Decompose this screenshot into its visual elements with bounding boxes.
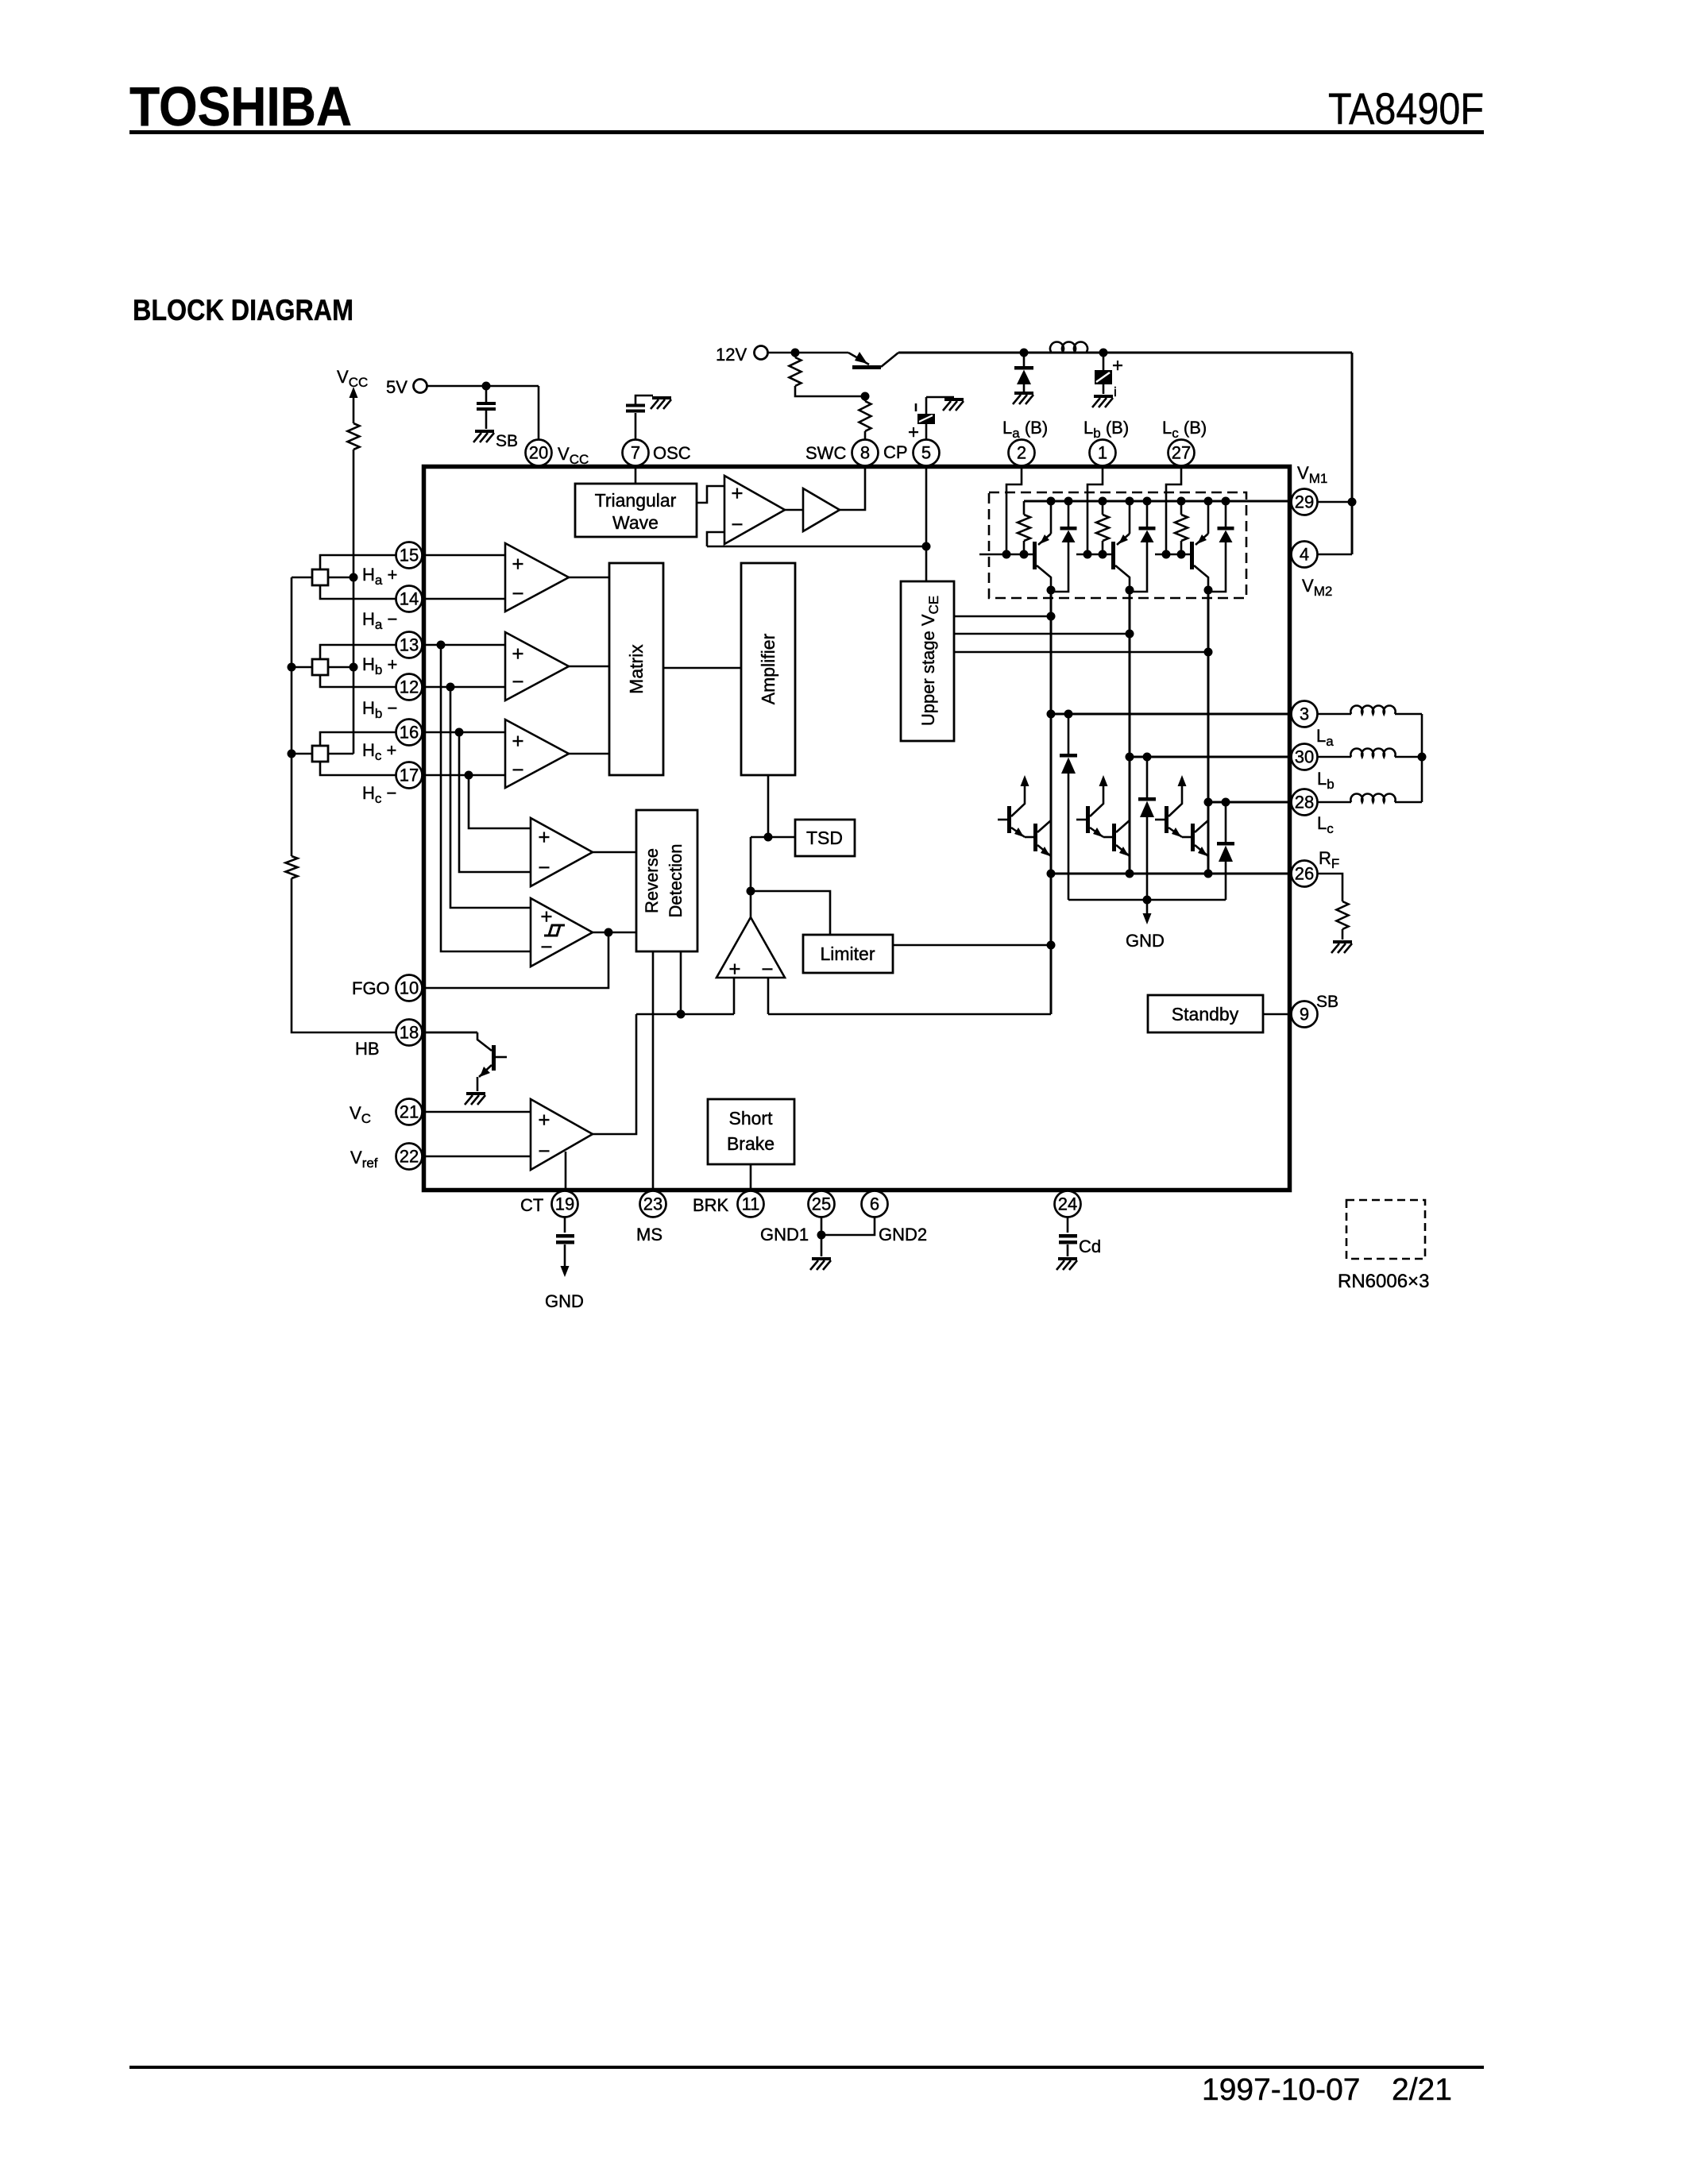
ground (C2) [1092, 396, 1113, 407]
header rule [129, 130, 1484, 134]
svg-text:6: 6 [870, 1194, 879, 1214]
svg-text:+: + [908, 422, 919, 443]
wire Limiter output to current sense line [893, 944, 1051, 947]
wire Hb right lead to VCC line [328, 666, 353, 669]
svg-text:Cd: Cd [1079, 1237, 1101, 1256]
transistor lower Q2b collector [1116, 820, 1130, 832]
pin 27 [1168, 440, 1195, 466]
block Amplifier [741, 563, 795, 775]
pin 12 [396, 674, 423, 700]
transistor lower Q2a base bar [1033, 824, 1037, 851]
svg-text:3: 3 [1300, 704, 1309, 724]
wire comparator - input jog [707, 532, 724, 546]
wire pin 26 to RF resistor [1317, 874, 1342, 901]
wire PWM node to Limiter [751, 891, 830, 935]
svg-text:27: 27 [1172, 443, 1191, 463]
transistor upper Qc emitter (arrow in, PNP) [1207, 503, 1210, 534]
transistor lower Q1b base bar [1086, 806, 1090, 833]
diode D1 flyback on 12V rail [1023, 353, 1026, 366]
junction collector node a [1047, 586, 1056, 595]
wire pin29 to VM line [1318, 501, 1352, 504]
wire Hc top lead to pin 16 [320, 732, 505, 746]
junction drive a [1047, 612, 1056, 621]
inductor motor winding Lb [1317, 756, 1351, 758]
ground (C3) [943, 399, 964, 411]
wire pin feed jog phase b [1087, 465, 1103, 554]
junction VCC / Hb+ [350, 663, 358, 672]
base rail upper transistor b [1076, 554, 1111, 556]
label minus tick of C3 [915, 403, 917, 411]
wire down to PWM node [750, 837, 752, 891]
junction VM1 rail / emitter c [1204, 497, 1213, 506]
transistor upper Qa collector [1037, 565, 1051, 590]
wire - input rail to RF sense [768, 1013, 1051, 1016]
wire base node down to pin 8 [864, 396, 867, 401]
svg-text:12: 12 [400, 677, 419, 697]
block Triangular Wave [575, 484, 697, 537]
wire Hb left lead [292, 666, 312, 669]
hall element Hc (square) [312, 746, 328, 762]
wire triangular wave to comparator + input [697, 486, 724, 503]
transistor lower Q1b collector with up arrow [1090, 785, 1103, 816]
wire U5 output to Reverse Detection [593, 932, 636, 934]
transistor lower Q1a base stub [998, 819, 1008, 821]
transistor lower Q2c collector [1195, 820, 1208, 832]
junction RF / emitter b [1126, 870, 1134, 878]
svg-text:−: − [731, 512, 743, 536]
svg-text:+: + [538, 825, 550, 849]
wire bus3 (Hc+) down to comp4 - input [459, 732, 531, 872]
junction amplifier out / TSD [764, 833, 773, 842]
capacitor CT [556, 1234, 574, 1238]
pin 22 [396, 1144, 423, 1170]
svg-text:Upper stage VCE: Upper stage VCE [918, 596, 941, 726]
junction Lc / diode c [1222, 798, 1230, 807]
svg-text:La (B): La (B) [1002, 418, 1048, 441]
svg-text:Standby: Standby [1172, 1004, 1239, 1024]
block Short Brake [708, 1099, 794, 1164]
resistor from 12V rail [794, 353, 797, 357]
svg-text:CT: CT [520, 1195, 543, 1215]
transistor upper Qb collector [1115, 565, 1130, 590]
pin 9 [1292, 1001, 1318, 1028]
wire Standby to pin 9 [1263, 1013, 1292, 1016]
pin 16 [396, 720, 423, 746]
op-amp position comparator U4 [531, 818, 593, 886]
pin 14 [396, 586, 423, 612]
svg-text:Limiter: Limiter [820, 943, 875, 964]
svg-text:16: 16 [400, 723, 419, 743]
wire upper stage drive c [954, 651, 1208, 654]
junction 12V / resistor [791, 349, 800, 357]
transistor lower Q1a base bar [1007, 806, 1011, 833]
transistor Q-HB base bar [492, 1045, 496, 1071]
wire Reverse Detection to PWM + rail [680, 951, 682, 1014]
svg-text:+: + [512, 552, 523, 576]
diode flyback upper c [1222, 497, 1230, 506]
IC block boundary TA8490F [424, 467, 1290, 1190]
svg-text:29: 29 [1295, 492, 1314, 512]
wire 5V rail [427, 385, 539, 388]
svg-text:SWC: SWC [805, 443, 846, 463]
wire VCC line down to hall bridges [353, 450, 355, 754]
pin 20 VCC wire stub [538, 440, 540, 465]
wire bus2 (Hb-) down to hysteresis comp + input [450, 687, 531, 908]
diode flyback upper a [1064, 497, 1073, 506]
svg-text:26: 26 [1295, 864, 1314, 884]
wire Ha right lead to VCC line [328, 577, 353, 579]
resistor on left bias line [286, 856, 298, 878]
wire Lc phase line [1208, 801, 1317, 804]
pin 4 [1292, 542, 1318, 568]
wire U2 out to U3 [785, 509, 803, 511]
wire Short Brake to pin 11 [750, 1164, 752, 1188]
transistor lower Q2a emitter with arrow to RF rail [1037, 845, 1051, 856]
svg-text:22: 22 [400, 1147, 419, 1167]
wire 12V rail [767, 352, 848, 354]
svg-text:OSC: OSC [653, 443, 691, 463]
arrow up to VCC [350, 387, 358, 398]
wire U4 output to Reverse Detection [593, 851, 636, 854]
junction bridge rail [1143, 896, 1152, 905]
svg-text:5: 5 [921, 443, 931, 463]
wire Hb bottom lead to pin 12 [320, 675, 505, 687]
ground (GND1) [810, 1259, 831, 1270]
wire collector rail to VM supply [898, 352, 1352, 354]
wire Amplifier output down [767, 775, 770, 837]
wire star point vertical [1421, 714, 1423, 802]
wire U7 output to PWM + rail [593, 1014, 636, 1134]
op-amp U7 Vc error amp [531, 1099, 593, 1170]
op-amp U6 PWM comparator (apex up) [717, 917, 785, 978]
block Matrix [609, 563, 663, 775]
dashed box RN6006 legend [1346, 1200, 1425, 1259]
ground (Q-HB) [465, 1094, 485, 1105]
junction pin13 wire / bus1 [437, 641, 446, 650]
inductor motor winding Lc [1317, 801, 1351, 804]
wire OSC cap to ground [635, 396, 653, 404]
hysteresis symbol in U5 [544, 925, 565, 936]
wire hall amp B output to Matrix [569, 666, 609, 668]
svg-text:Reverse: Reverse [642, 848, 662, 913]
svg-text:23: 23 [643, 1194, 662, 1214]
wire Hb top lead to pin 13 [320, 645, 505, 659]
svg-text:GND: GND [1126, 931, 1165, 951]
wire bus1 (Hb+) down to hysteresis comp - input [441, 645, 531, 951]
capacitor SB bypass [477, 402, 496, 405]
op-amp hall amp A [505, 543, 569, 612]
capacitor OSC [635, 413, 637, 466]
junction feed / base rail c [1162, 550, 1171, 559]
svg-text:HB: HB [355, 1039, 380, 1059]
svg-text:+: + [512, 729, 523, 753]
wire bus4 (Hc-) down to comp4 + input [469, 775, 531, 828]
wire VCC vertical [353, 396, 355, 423]
svg-text:30: 30 [1295, 747, 1314, 767]
junction base rail / resistor a [1020, 550, 1029, 559]
pin 25 [809, 1191, 835, 1217]
pin 19 [552, 1191, 578, 1217]
svg-text:1997-10-07: 1997-10-07 [1202, 2073, 1361, 2107]
dashed box upper driver transistors RN6006 [989, 492, 1246, 598]
junction La / output a [1047, 710, 1056, 719]
junction RF / emitter a [1047, 870, 1056, 878]
junction pin16 wire / bus3 [455, 728, 464, 737]
inductor L1 on supply rail [1050, 341, 1087, 352]
junction VM1 external [1348, 498, 1357, 507]
svg-text:SB: SB [1316, 993, 1338, 1011]
wire + input rail from Vc amp [636, 1013, 734, 1016]
transistor lower Q1b emitter to Q2 base [1090, 828, 1103, 837]
junction PWM node [747, 887, 755, 896]
wire pin feed jog phase c [1166, 465, 1181, 554]
junction Lc / output c [1204, 798, 1213, 807]
svg-text:5V: 5V [386, 377, 408, 397]
transistor lower Q2a collector [1037, 820, 1051, 832]
junction rail / reservoir cap [1099, 349, 1108, 357]
resistor base-emitter upper a [1023, 501, 1026, 515]
svg-text:TA8490F: TA8490F [1328, 83, 1484, 133]
transistor upper Qa base bar [1033, 542, 1037, 569]
junction feed / base rail b [1083, 550, 1092, 559]
pin 3 [1292, 701, 1318, 727]
op-amp U2 oscillator comparator [724, 476, 785, 544]
pin 30 [1292, 744, 1318, 770]
transistor lower Q1c emitter to Q2 base [1168, 828, 1182, 837]
transistor upper Qb emitter (arrow in, PNP) [1129, 503, 1131, 534]
svg-text:Brake: Brake [727, 1133, 774, 1154]
pin 7 [623, 440, 649, 466]
wire 5V down to pin 20 [538, 386, 540, 440]
svg-text:RN6006×3: RN6006×3 [1338, 1271, 1429, 1292]
junction feed / base rail a [1002, 550, 1011, 559]
wire Lb phase line [1130, 756, 1317, 758]
wire Ha top lead to pin 15 [320, 555, 505, 569]
transistor upper Qc base bar [1190, 542, 1194, 569]
wire pin 22 to Vc amp - [422, 1156, 531, 1158]
hall element Ha (square) [312, 569, 328, 585]
wire resistor to base node [795, 386, 865, 396]
junction La / diode a [1064, 710, 1073, 719]
junction pin12 wire / bus2 [446, 683, 455, 692]
ground (RF) [1331, 942, 1352, 953]
footer rule [129, 2066, 1484, 2069]
resistor on VCC line [348, 423, 360, 450]
transistor lower Q1c collector with up arrow [1168, 785, 1182, 816]
wire left bias line (hall minus chain) [291, 577, 293, 856]
wire CT cap to GND arrow [564, 1244, 566, 1268]
svg-text:9: 9 [1300, 1005, 1309, 1024]
svg-text:Amplifier: Amplifier [758, 633, 778, 704]
op-amp hysteresis comparator U5 [531, 898, 593, 967]
svg-text:FGO: FGO [352, 978, 390, 998]
svg-text:2/21: 2/21 [1392, 2073, 1452, 2107]
wire PWM node to comparator apex [750, 891, 752, 917]
junction base rail / resistor c [1177, 550, 1186, 559]
wire upper stage drive a [954, 615, 1051, 618]
svg-text:+: + [538, 1108, 550, 1132]
svg-text:−: − [512, 581, 523, 605]
pin 11 [738, 1191, 764, 1217]
wire GND1 to GND2 bridge [821, 1217, 875, 1235]
transistor Q-HB emitter with arrow [479, 1065, 492, 1077]
svg-text:21: 21 [400, 1102, 419, 1122]
junction Lb / output b [1126, 753, 1134, 762]
svg-text:TSD: TSD [806, 828, 843, 848]
svg-text:GND: GND [545, 1291, 584, 1311]
wire to SB capacitor [485, 386, 488, 403]
svg-text:−: − [538, 1139, 550, 1163]
block Limiter [803, 935, 893, 973]
wire Ha left lead [292, 577, 312, 579]
svg-text:+: + [1112, 355, 1123, 376]
pin 28 [1292, 789, 1318, 816]
transistor upper Qc collector [1194, 565, 1208, 590]
wire Hc bottom lead to pin 17 [320, 762, 505, 775]
svg-text:−: − [512, 669, 523, 693]
hall element Hb (square) [312, 659, 328, 675]
svg-text:2: 2 [1017, 443, 1026, 463]
junction collector node c [1204, 586, 1213, 595]
svg-text:15: 15 [400, 546, 419, 565]
block Reverse Detection [636, 810, 697, 951]
resistor to SWC pin [859, 401, 871, 431]
svg-text:TOSHIBA: TOSHIBA [129, 75, 352, 137]
resistor base-emitter upper c [1180, 501, 1183, 515]
wire phase b output vertical [1129, 590, 1131, 874]
wire CT line from U7 to pin 19 [565, 1152, 567, 1188]
wire bridge ground rail [1068, 899, 1226, 901]
transistor Q1 base bar [852, 365, 881, 369]
svg-text:−: − [761, 957, 773, 981]
pin 23 [640, 1191, 666, 1217]
wire GND1 node down [821, 1235, 823, 1256]
pin 6 [862, 1191, 888, 1217]
block Standby [1148, 995, 1263, 1032]
wire Hc left lead [292, 753, 312, 755]
resistor base-emitter upper b [1102, 501, 1104, 515]
pin 20 [526, 440, 552, 466]
junction left line / Hc [288, 750, 296, 758]
transistor lower Q2c base bar [1191, 824, 1195, 851]
diode lower a (La to bridge) [1068, 714, 1070, 754]
junction RF / emitter c [1204, 870, 1213, 878]
junction VCC / Ha+ [350, 573, 358, 582]
svg-text:BRK: BRK [693, 1195, 729, 1215]
svg-text:−: − [540, 935, 552, 959]
svg-text:10: 10 [400, 978, 419, 998]
op-amp hall amp C [505, 720, 569, 788]
svg-text:1: 1 [1098, 443, 1107, 463]
pin 26 [1292, 861, 1318, 887]
block TSD [795, 820, 855, 856]
wire pin 24 to Cd cap [1067, 1217, 1069, 1233]
wire pin7 to Triangular Wave box [635, 466, 637, 484]
wire pin 19 to CT capacitor [564, 1217, 566, 1233]
wire phase a output vertical [1050, 590, 1053, 1014]
junction RD / + rail [677, 1010, 686, 1019]
pin 8 [852, 440, 879, 466]
arrow bridge rail to GND [1146, 900, 1149, 915]
pin 5 [914, 440, 940, 466]
base rail upper transistor c [1155, 554, 1190, 556]
wire pin 21 to Vc amp + [422, 1111, 531, 1113]
junction limiter / sense line [1047, 941, 1056, 950]
wire oscillator feedback rail [707, 546, 926, 548]
junction base rail / resistor b [1099, 550, 1107, 559]
svg-text:18: 18 [400, 1023, 419, 1043]
junction base node Q-SWC [861, 392, 870, 401]
wire U6 - input [767, 978, 770, 1014]
wire CP pin down to Upper stage block [925, 466, 928, 581]
wire La phase line [1051, 713, 1317, 716]
svg-text:7: 7 [631, 443, 640, 463]
wire left line down to HB pin [292, 878, 477, 1032]
transistor lower Q1c base stub [1155, 819, 1165, 821]
pin 18 [396, 1020, 423, 1046]
svg-text:11: 11 [742, 1194, 760, 1214]
capacitor C2 reservoir electrolytic [1103, 353, 1105, 370]
svg-text:8: 8 [860, 443, 870, 463]
svg-text:i: i [1114, 384, 1117, 399]
svg-text:17: 17 [400, 766, 419, 785]
svg-text:20: 20 [529, 443, 548, 463]
junction U5 output / FGO [605, 928, 613, 937]
resistor RF sense [1337, 901, 1349, 929]
svg-text:4: 4 [1300, 545, 1309, 565]
junction rail / flyback diode [1020, 349, 1029, 357]
svg-text:13: 13 [400, 635, 419, 655]
transistor Q-HB collector lead [477, 1032, 492, 1051]
wire pin 18 into IC [422, 1032, 477, 1034]
wire Hc right lead to VCC line [328, 753, 353, 755]
wire hall amp C output to Matrix [569, 753, 609, 755]
wire VM external vertical [1351, 353, 1354, 554]
svg-text:MS: MS [636, 1225, 662, 1244]
junction 5V / SB cap [482, 382, 491, 391]
svg-text:GND1: GND1 [760, 1225, 809, 1244]
wire FGO pin to U5 output [422, 932, 608, 988]
transistor lower Q2b base bar [1112, 824, 1116, 851]
junction collector node b [1126, 586, 1134, 595]
junction GND1 node [817, 1231, 826, 1240]
svg-text:12V: 12V [716, 345, 747, 365]
wire Reverse Detection to MS pin 23 [652, 951, 655, 1188]
svg-text:+: + [540, 905, 552, 928]
svg-text:SB: SB [496, 432, 518, 450]
wire cap to ground [485, 411, 488, 429]
junction VM1 rail / emitter a [1047, 497, 1056, 506]
svg-text:+: + [512, 642, 523, 666]
svg-text:19: 19 [555, 1194, 574, 1214]
transistor upper Qa emitter (arrow in, PNP) [1050, 503, 1053, 534]
svg-text:Detection: Detection [666, 844, 686, 918]
svg-text:28: 28 [1295, 793, 1314, 812]
pin 10 [396, 975, 423, 1001]
ground (D1) [1013, 393, 1033, 404]
svg-text:25: 25 [812, 1194, 831, 1214]
transistor lower Q2b emitter with arrow to RF rail [1116, 845, 1130, 856]
junction pin17 wire / bus4 [465, 771, 473, 780]
capacitor Cd [1059, 1234, 1077, 1238]
transistor lower Q1c base bar [1165, 806, 1168, 833]
transistor upper Qb base bar [1111, 542, 1115, 569]
svg-text:Lb (B): Lb (B) [1083, 418, 1129, 441]
pin 17 [396, 762, 423, 789]
block Upper stage VCE [901, 581, 954, 741]
ground (Cd) [1056, 1259, 1077, 1270]
buffer U3 [803, 488, 840, 531]
